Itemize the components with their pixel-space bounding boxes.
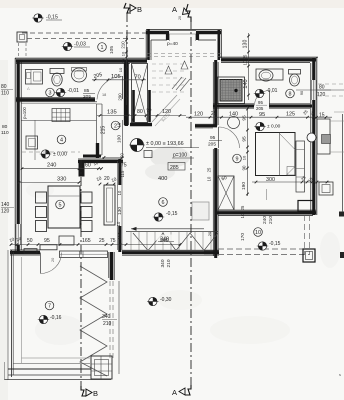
svg-text:p=100: p=100 — [22, 106, 27, 118]
svg-text:75: 75 — [110, 238, 116, 244]
svg-text:25: 25 — [99, 238, 105, 244]
svg-text:120: 120 — [162, 109, 171, 115]
svg-text:240: 240 — [262, 216, 268, 224]
svg-text:100: 100 — [117, 135, 123, 143]
svg-text:340: 340 — [102, 314, 111, 320]
svg-text:35: 35 — [121, 58, 126, 63]
svg-text:105: 105 — [109, 46, 115, 54]
svg-text:95: 95 — [258, 100, 263, 105]
svg-text:340: 340 — [160, 238, 169, 244]
svg-text:10: 10 — [207, 176, 212, 181]
svg-text:3: 3 — [49, 91, 52, 97]
svg-text:95: 95 — [242, 136, 248, 142]
svg-text:-0,01: -0,01 — [266, 88, 278, 94]
svg-text:A: A — [172, 5, 177, 14]
svg-text:115: 115 — [120, 170, 125, 177]
svg-text:10: 10 — [242, 155, 247, 160]
svg-text:120: 120 — [1, 209, 10, 215]
svg-text:25: 25 — [243, 54, 248, 59]
svg-text:170: 170 — [240, 233, 246, 241]
svg-text:-0,16: -0,16 — [50, 315, 62, 321]
svg-text:95: 95 — [210, 135, 216, 141]
svg-text:80: 80 — [319, 85, 325, 91]
svg-text:175: 175 — [118, 163, 127, 169]
svg-text:20: 20 — [207, 231, 212, 236]
svg-text:9: 9 — [236, 157, 239, 163]
svg-text:A: A — [172, 388, 177, 397]
svg-text:80: 80 — [2, 124, 8, 130]
svg-text:190: 190 — [241, 182, 247, 190]
svg-text:p=40: p=40 — [167, 41, 178, 47]
svg-text:20: 20 — [51, 258, 55, 262]
svg-text:10: 10 — [116, 221, 121, 226]
svg-text:210: 210 — [268, 216, 274, 224]
svg-text:50: 50 — [27, 238, 33, 244]
svg-text:210: 210 — [166, 259, 172, 267]
svg-text:10: 10 — [243, 60, 248, 65]
svg-text:10: 10 — [121, 51, 126, 56]
svg-text:20: 20 — [178, 16, 182, 20]
svg-text:± 0,00: ± 0,00 — [267, 124, 281, 130]
svg-text:130: 130 — [117, 207, 123, 215]
svg-text:15: 15 — [319, 113, 325, 119]
svg-text:-0,03: -0,03 — [74, 42, 86, 48]
svg-text:5: 5 — [59, 203, 62, 209]
svg-text:240: 240 — [47, 163, 56, 169]
svg-text:140: 140 — [1, 202, 10, 208]
svg-text:4: 4 — [60, 138, 63, 144]
svg-text:125: 125 — [286, 112, 295, 118]
svg-text:205: 205 — [83, 94, 91, 100]
svg-text:140: 140 — [243, 79, 249, 88]
svg-text:8: 8 — [289, 92, 292, 98]
svg-text:285: 285 — [170, 165, 179, 171]
svg-text:95: 95 — [259, 112, 265, 118]
svg-text:18: 18 — [102, 93, 106, 97]
svg-text:330: 330 — [57, 177, 66, 183]
svg-text:6: 6 — [162, 200, 165, 206]
svg-text:B: B — [93, 389, 98, 398]
svg-text:20: 20 — [104, 176, 110, 182]
svg-text:-0,15: -0,15 — [269, 241, 281, 247]
svg-text:340: 340 — [160, 259, 166, 267]
svg-text:210: 210 — [103, 321, 112, 327]
svg-text:80: 80 — [137, 109, 143, 115]
svg-text:95: 95 — [242, 115, 248, 121]
svg-text:p=100: p=100 — [173, 153, 187, 159]
svg-text:-0,15: -0,15 — [46, 15, 58, 21]
svg-text:95: 95 — [44, 238, 50, 244]
svg-text:25: 25 — [240, 205, 245, 210]
svg-text:80: 80 — [1, 84, 7, 90]
svg-text:105: 105 — [111, 74, 121, 80]
svg-text:25: 25 — [211, 111, 217, 117]
svg-text:7: 7 — [48, 304, 51, 310]
svg-text:110: 110 — [1, 130, 9, 136]
svg-text:215: 215 — [101, 126, 107, 135]
svg-text:25: 25 — [207, 167, 212, 172]
svg-text:-0,30: -0,30 — [160, 297, 172, 303]
svg-text:-0,15: -0,15 — [166, 211, 178, 217]
svg-text:10: 10 — [255, 230, 261, 236]
svg-text:B: B — [137, 5, 142, 14]
svg-text:140: 140 — [229, 112, 238, 118]
svg-text:300: 300 — [266, 177, 275, 183]
svg-text:10: 10 — [117, 122, 122, 127]
svg-text:110: 110 — [117, 232, 123, 240]
svg-text:110: 110 — [1, 91, 9, 97]
svg-text:205: 205 — [256, 106, 264, 111]
svg-text:90: 90 — [242, 165, 247, 170]
svg-text:10: 10 — [240, 213, 245, 218]
svg-text:205: 205 — [208, 142, 216, 148]
svg-text:1: 1 — [101, 45, 104, 51]
svg-text:± 0,00 ≡ 193,66: ± 0,00 ≡ 193,66 — [146, 141, 184, 147]
svg-text:10: 10 — [117, 190, 122, 195]
svg-text:90: 90 — [300, 91, 304, 95]
svg-text:400: 400 — [158, 176, 167, 182]
svg-text:290: 290 — [118, 93, 123, 101]
svg-text:± 0,00: ± 0,00 — [53, 152, 67, 158]
svg-text:85: 85 — [84, 88, 90, 94]
svg-text:210: 210 — [121, 41, 126, 49]
svg-text:10: 10 — [118, 67, 123, 72]
svg-text:120: 120 — [194, 112, 203, 118]
svg-text:135: 135 — [107, 110, 117, 116]
svg-text:130: 130 — [243, 40, 249, 49]
svg-text:165: 165 — [82, 238, 91, 244]
svg-text:60: 60 — [85, 163, 91, 169]
svg-text:s: s — [339, 372, 341, 377]
svg-text:120: 120 — [317, 92, 326, 98]
svg-text:-0,01: -0,01 — [68, 88, 80, 94]
